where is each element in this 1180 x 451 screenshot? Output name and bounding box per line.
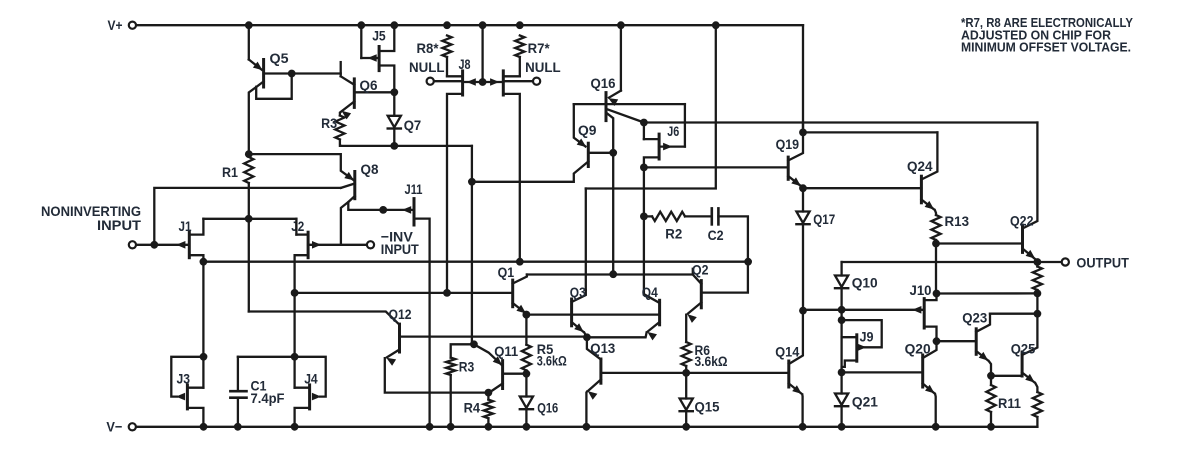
svg-text:J1: J1 (179, 218, 192, 234)
svg-text:Q22: Q22 (1010, 213, 1034, 229)
svg-text:Q21: Q21 (852, 394, 878, 410)
svg-text:INPUT: INPUT (381, 241, 419, 257)
svg-text:Q16: Q16 (591, 75, 616, 91)
svg-text:Q15: Q15 (695, 399, 720, 415)
svg-text:Q9: Q9 (578, 122, 597, 138)
svg-text:Q23: Q23 (962, 309, 987, 325)
svg-text:NULL: NULL (409, 59, 445, 75)
svg-text:Q12: Q12 (389, 306, 412, 322)
svg-text:J4: J4 (304, 371, 318, 387)
svg-text:Q20: Q20 (905, 340, 931, 356)
svg-text:R3: R3 (459, 358, 475, 374)
svg-text:R1: R1 (222, 164, 238, 180)
svg-text:J10: J10 (910, 282, 932, 298)
svg-text:J6: J6 (667, 123, 679, 139)
svg-text:Q4: Q4 (642, 284, 658, 300)
svg-text:Q1: Q1 (498, 264, 515, 280)
svg-text:Q7: Q7 (404, 117, 422, 133)
svg-text:J2: J2 (291, 218, 304, 234)
svg-text:V−: V− (106, 419, 122, 435)
svg-text:7.4pF: 7.4pF (251, 390, 285, 406)
svg-text:Q11: Q11 (494, 343, 518, 359)
svg-text:Q13: Q13 (590, 340, 615, 356)
svg-text:R11: R11 (998, 395, 1021, 411)
svg-text:Q2: Q2 (692, 262, 709, 278)
svg-text:Q8: Q8 (361, 161, 379, 177)
svg-text:R2: R2 (665, 226, 682, 242)
svg-text:J3: J3 (177, 371, 191, 387)
svg-text:R13: R13 (945, 213, 970, 229)
svg-text:R3: R3 (321, 115, 337, 131)
svg-text:R4: R4 (464, 400, 481, 416)
svg-text:NULL: NULL (525, 59, 561, 75)
svg-text:Q6: Q6 (360, 77, 378, 93)
svg-text:Q14: Q14 (775, 344, 799, 360)
svg-text:Q19: Q19 (776, 136, 800, 152)
svg-text:R8*: R8* (417, 40, 440, 56)
svg-text:J9: J9 (860, 329, 874, 345)
svg-text:Q3: Q3 (570, 284, 586, 300)
svg-text:C2: C2 (708, 227, 724, 243)
svg-text:Q5: Q5 (270, 50, 289, 66)
svg-text:Q24: Q24 (907, 158, 933, 174)
svg-text:3.6kΩ: 3.6kΩ (695, 353, 728, 369)
svg-text:R7*: R7* (528, 40, 551, 56)
svg-text:MINIMUM OFFSET VOLTAGE.: MINIMUM OFFSET VOLTAGE. (961, 40, 1131, 55)
svg-text:J8: J8 (459, 56, 471, 72)
svg-text:3.6kΩ: 3.6kΩ (537, 352, 567, 368)
svg-text:Q17: Q17 (813, 211, 835, 227)
svg-text:Q25: Q25 (1011, 340, 1036, 356)
svg-text:Q16: Q16 (537, 399, 558, 415)
svg-text:V+: V+ (108, 17, 123, 33)
svg-text:OUTPUT: OUTPUT (1076, 255, 1129, 271)
svg-text:INPUT: INPUT (97, 217, 141, 233)
svg-text:Q10: Q10 (852, 275, 878, 291)
svg-text:J11: J11 (405, 181, 423, 197)
svg-text:J5: J5 (372, 27, 386, 43)
